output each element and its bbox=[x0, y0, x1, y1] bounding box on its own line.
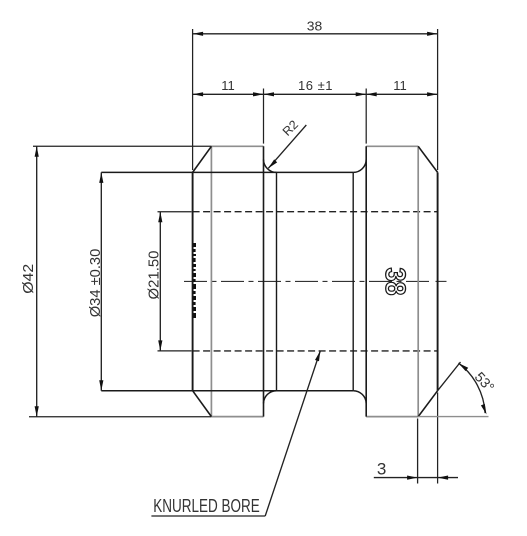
dimension diam42 arrow bottom bbox=[35, 406, 39, 417]
left end face bbox=[192, 172, 194, 390]
dimension 16+-1 line bbox=[264, 93, 367, 95]
angle 53 arc arrow top bbox=[459, 363, 469, 371]
svg-text:KNURLED BORE: KNURLED BORE bbox=[153, 495, 259, 516]
flange bottom silhouette right (gray) bbox=[366, 416, 418, 418]
dimension 11 left arrow a bbox=[193, 92, 204, 96]
dimension 16 arrow a bbox=[264, 92, 275, 96]
hidden bore bottom line bbox=[193, 350, 438, 352]
svg-text:38: 38 bbox=[307, 18, 323, 33]
dimension diam34 arrow top bbox=[99, 172, 103, 183]
dimension diam34 vertical line bbox=[100, 172, 102, 390]
svg-text:Ø21.50: Ø21.50 bbox=[146, 251, 163, 300]
dimension diam21.50 arrow top bbox=[158, 212, 162, 223]
dimension diam42 extension bottom bbox=[29, 416, 211, 418]
angle 53 horizontal extension (gray) bbox=[418, 416, 488, 418]
chamfer top-left bbox=[193, 146, 212, 172]
dimension diam21.50 extension top bbox=[158, 211, 192, 213]
leader R2 line bbox=[268, 125, 306, 168]
dimension diam21.50 extension bottom bbox=[158, 350, 192, 352]
fillet R2 top-left bbox=[264, 160, 277, 173]
extension line groove wall left up bbox=[263, 89, 265, 144]
knurl tick marks on left face bbox=[193, 243, 196, 318]
angle 53 arc arrow bottom bbox=[481, 404, 487, 415]
dimension 11 right arrow b bbox=[427, 92, 438, 96]
dimension 3 arrow left bbox=[407, 476, 418, 480]
knurled bore leader arrow bbox=[315, 351, 320, 362]
dimension diam21.50 arrow bottom bbox=[158, 340, 162, 351]
centerline axis bbox=[184, 280, 433, 282]
groove left wall edge circle bbox=[263, 146, 265, 416]
fillet R2 top-right bbox=[353, 160, 366, 173]
dimension 38 arrow right bbox=[427, 32, 438, 36]
fillet R2 bottom-right bbox=[353, 391, 366, 404]
dimension 11 right arrow a bbox=[366, 92, 377, 96]
chamfer edge circle right (gray vertical) bbox=[417, 146, 419, 416]
svg-text:38: 38 bbox=[380, 268, 411, 296]
angle 53 arc bbox=[459, 363, 486, 413]
hidden bore top line bbox=[193, 211, 438, 213]
extension line right face up bbox=[437, 29, 439, 170]
dimension diam42 arrow top bbox=[35, 146, 39, 157]
groove right wall edge circle bbox=[365, 146, 367, 416]
dimension 3 extension right bbox=[437, 393, 439, 484]
dimension 3 line bbox=[374, 477, 458, 479]
dimension diam34 arrow bottom bbox=[99, 380, 103, 391]
dimension 11 right line bbox=[366, 93, 437, 95]
groove floor top + diam 34 extension line bbox=[101, 171, 353, 173]
dimension 38 line bbox=[193, 33, 438, 35]
fillet tangent edge left vertical bbox=[276, 172, 278, 390]
dimension 3 arrow right bbox=[438, 476, 449, 480]
leader R2 arrow bbox=[268, 159, 277, 168]
svg-text:Ø34 ±0.30: Ø34 ±0.30 bbox=[87, 249, 104, 318]
svg-text:11: 11 bbox=[221, 78, 235, 93]
flange top silhouette left (gray) bbox=[211, 145, 263, 147]
svg-text:53°: 53° bbox=[472, 369, 498, 395]
chamfer top-right bbox=[418, 146, 437, 172]
svg-text:3: 3 bbox=[377, 459, 386, 478]
dimension 11 left arrow b bbox=[253, 92, 264, 96]
chamfer bottom-left bbox=[193, 391, 212, 417]
dimension 16 arrow b bbox=[356, 92, 367, 96]
svg-text:11: 11 bbox=[393, 78, 407, 93]
svg-text:Ø42: Ø42 bbox=[20, 264, 37, 294]
dimension 11 left line bbox=[193, 93, 264, 95]
svg-text:16 ±1: 16 ±1 bbox=[298, 78, 333, 93]
fillet tangent edge right vertical bbox=[352, 172, 354, 390]
flange bottom silhouette left (gray) bbox=[211, 416, 263, 418]
angle 53 chamfer extension line bbox=[438, 362, 461, 391]
flange top silhouette right (gray) bbox=[366, 145, 418, 147]
right end face bbox=[437, 172, 439, 390]
dimension 38 arrow left bbox=[193, 32, 204, 36]
groove floor bottom + diam 34 extension line bbox=[101, 390, 353, 392]
dimension diam42 extension top bbox=[33, 145, 211, 147]
extension line groove wall right up bbox=[365, 89, 367, 144]
fillet R2 bottom-left bbox=[264, 391, 277, 404]
chamfer edge circle left (gray vertical) bbox=[210, 146, 212, 416]
knurled bore leader diagonal bbox=[265, 351, 320, 516]
dimension diam21.50 vertical line bbox=[159, 212, 161, 351]
dimension diam42 vertical line bbox=[36, 146, 38, 417]
chamfer bottom-right bbox=[418, 391, 437, 417]
knurled bore leader underline bbox=[151, 515, 265, 517]
dimension 3 extension left bbox=[417, 419, 419, 484]
svg-text:R2: R2 bbox=[280, 118, 301, 139]
extension line left face up bbox=[192, 29, 194, 170]
